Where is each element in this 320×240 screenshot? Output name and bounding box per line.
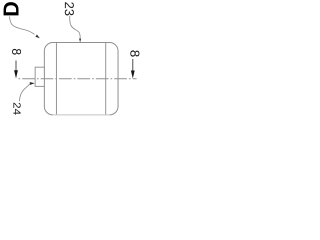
centerline (dash-dot)	[19, 78, 137, 80]
dimension arrow left 8	[15, 61, 17, 74]
leader arrow from D	[10, 17, 35, 35]
leader from 24 up to flange	[19, 84, 30, 101]
label 23	[65, 2, 74, 15]
label 8 right	[130, 50, 139, 56]
dimension arrow right 8	[132, 59, 134, 73]
flange 24 (small rect protruding on left)	[35, 67, 44, 86]
body bottom edge (faint)	[53, 114, 110, 116]
left rim line	[55, 43, 57, 114]
label 8 left	[12, 49, 21, 55]
leader from 23 down to top edge	[70, 16, 81, 39]
body 23 (rounded housing outline, bottom edge drawn fainter)	[44, 43, 118, 115]
label 24	[13, 103, 20, 115]
right rim line	[105, 43, 107, 114]
label D	[4, 2, 19, 15]
